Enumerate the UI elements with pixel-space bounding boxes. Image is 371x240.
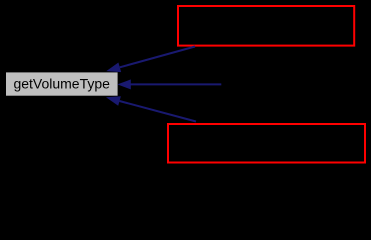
node getVolumeType (current node, gray) (6, 72, 118, 95)
edge from caller3 to getVolumeType (106, 96, 196, 121)
svg-text:getVolumeType: getVolumeType (13, 75, 110, 91)
edge from caller1 to getVolumeType (106, 47, 195, 73)
node caller1 (truncated, red box, top) (178, 6, 354, 46)
node caller3 (truncated, red box, bottom) (168, 124, 365, 163)
edge from caller2 (invisible node) to getVolumeType (117, 79, 221, 89)
